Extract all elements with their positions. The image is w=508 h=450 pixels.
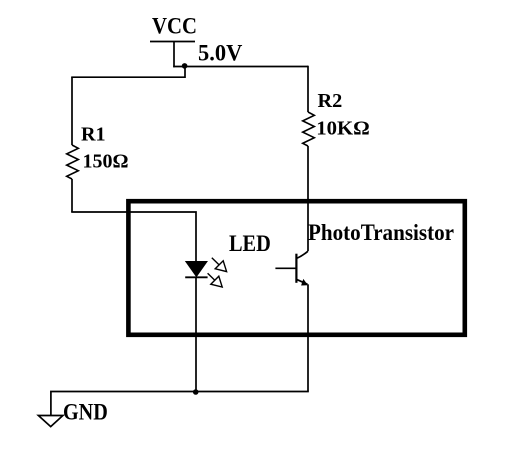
svg-text:R1: R1 [81, 124, 106, 145]
wire R1 to LED anode [71, 212, 196, 262]
svg-text:VCC: VCC [152, 14, 197, 39]
junction dot on ground rail [193, 389, 199, 395]
phototransistor emitter arrow [301, 279, 308, 286]
svg-text:GND: GND [63, 399, 108, 424]
LED [185, 262, 207, 278]
phototransistor [275, 251, 308, 284]
power symbol VCC [150, 42, 195, 68]
wire R2 top lead [307, 66, 309, 112]
LED light arrows [208, 258, 227, 287]
resistor R1 [67, 145, 79, 179]
resistor R2 [303, 112, 315, 146]
wire emitter down [307, 284, 309, 391]
ground symbol [38, 416, 63, 427]
svg-text:10KΩ: 10KΩ [316, 119, 370, 140]
wire ground rail [51, 392, 309, 416]
wire R2 to collector [307, 146, 309, 251]
optocoupler box [128, 201, 464, 335]
svg-text:R2: R2 [318, 91, 343, 112]
wire junction down-left to R1 [71, 67, 185, 78]
wire R1 bottom lead [71, 179, 73, 212]
svg-text:PhotoTransistor: PhotoTransistor [308, 220, 454, 245]
wire LED cathode down [195, 277, 197, 392]
svg-text:5.0V: 5.0V [198, 41, 243, 66]
junction dot at VCC node [182, 63, 188, 69]
svg-text:LED: LED [229, 231, 271, 256]
wire VCC node to R2 column [173, 66, 308, 68]
wire R1 top lead [71, 77, 73, 145]
svg-text:150Ω: 150Ω [83, 152, 129, 173]
